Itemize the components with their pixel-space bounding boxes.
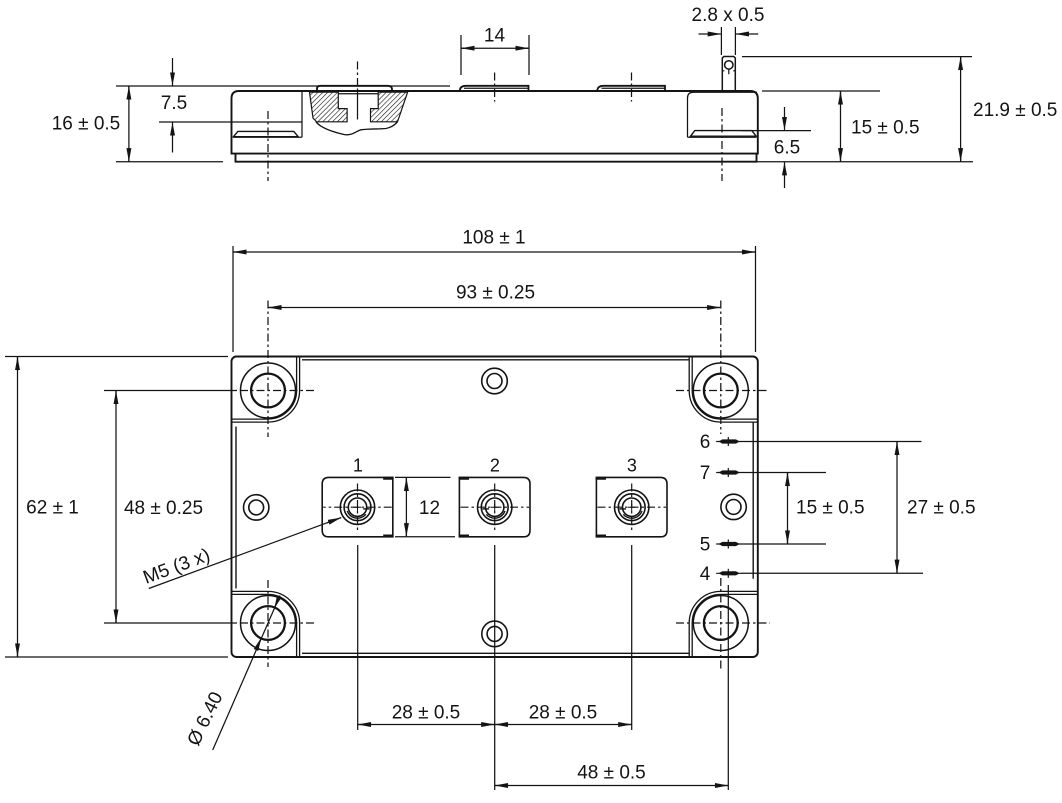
side view: right washer trapezoid	[691, 131, 757, 137]
terminal 3 circles	[615, 490, 649, 524]
terminal 1 circles	[340, 490, 374, 524]
top view: lid inset top	[302, 359, 689, 361]
dimension 48±0.25	[104, 390, 237, 392]
side view: terminal bump 2	[460, 86, 529, 91]
svg-text:14: 14	[484, 26, 506, 47]
terminal 3	[596, 477, 667, 536]
side view: nut top line in cavity	[338, 93, 378, 95]
side view: module body outline	[232, 91, 758, 162]
terminals 1 2 3	[322, 477, 667, 536]
terminal 1 centerlines	[323, 484, 392, 532]
centerline bump3 (side)	[631, 73, 633, 102]
side view: right boss inner vertical + top	[688, 92, 758, 137]
svg-text:5: 5	[700, 535, 711, 556]
terminal 3 square	[596, 477, 667, 536]
corner tab top-left	[232, 357, 297, 420]
svg-text:7: 7	[700, 463, 711, 484]
mounting hole bottom-right	[693, 596, 748, 651]
svg-text:48 ± 0.5: 48 ± 0.5	[577, 763, 646, 784]
svg-text:M5 (3 x): M5 (3 x)	[140, 545, 213, 589]
top view: lid inset bottom	[302, 652, 689, 654]
svg-text:6: 6	[700, 432, 711, 453]
corner tab top-right	[692, 357, 758, 420]
centerline hole TL vertical	[240, 301, 770, 671]
top view: module outline	[232, 357, 758, 658]
pin 7	[716, 468, 741, 477]
corner tab bottom-right	[692, 594, 758, 657]
svg-text:28 ± 0.5: 28 ± 0.5	[392, 703, 461, 724]
dimension 16 +-0.5 : extension lines	[116, 85, 450, 87]
dimension 28 right	[495, 724, 631, 726]
small hole top middle	[482, 368, 508, 394]
terminal 2 square	[459, 477, 530, 536]
centerline left boss (side)	[267, 111, 269, 181]
svg-text:2.8 x 0.5: 2.8 x 0.5	[692, 5, 765, 26]
pin extension lines	[741, 441, 922, 443]
svg-text:15 ± 0.5: 15 ± 0.5	[796, 498, 865, 519]
mounting hole top-left	[241, 363, 296, 418]
terminal 1 square	[322, 477, 393, 536]
side view: screw centerline in cavity	[357, 89, 359, 120]
dia 6.40 leader	[213, 596, 280, 751]
terminal 3 centerlines	[598, 484, 667, 532]
side view: nut pocket right hatch block	[371, 92, 408, 122]
svg-text:21.9 ± 0.5: 21.9 ± 0.5	[973, 100, 1057, 121]
dimension 7.5 arrows	[172, 58, 174, 86]
dimension 21.9 +-0.5	[742, 56, 972, 58]
dimension 16 line	[128, 86, 130, 161]
pin 5	[716, 540, 741, 549]
small hole bottom middle	[482, 621, 508, 647]
svg-text:93 ± 0.25: 93 ± 0.25	[456, 283, 535, 304]
side view centerlines	[268, 62, 722, 182]
svg-text:27 ± 0.5: 27 ± 0.5	[907, 498, 976, 519]
small hole left	[244, 495, 269, 520]
mounting hole top-right	[693, 363, 748, 418]
corner tab bottom-left	[232, 594, 297, 657]
small hole right	[721, 494, 746, 519]
svg-text:2: 2	[490, 456, 500, 476]
svg-text:108 ± 1: 108 ± 1	[462, 228, 525, 249]
centerline bump2 (side)	[494, 73, 496, 102]
terminal 2 circles	[478, 490, 512, 524]
terminal extension lines below	[357, 545, 359, 730]
svg-text:Ø 6.40: Ø 6.40	[184, 689, 228, 749]
terminal 2 centerlines	[461, 484, 530, 532]
svg-text:1: 1	[353, 456, 363, 476]
centerline nut pocket (side)	[357, 62, 359, 87]
dimension 108	[232, 246, 234, 352]
dimension 62	[5, 356, 228, 358]
dimension 15±0.5 top view	[787, 473, 789, 544]
pin 6	[716, 441, 741, 443]
dimension 27±0.5	[896, 442, 898, 573]
side view: baseplate	[236, 154, 757, 162]
terminal 1	[322, 477, 393, 536]
dimension 93	[268, 307, 720, 309]
side view: right boss bottom line	[688, 136, 757, 138]
side view: terminal bump 3	[597, 86, 665, 91]
side view: terminal cap over nut pocket	[317, 86, 392, 91]
dimension 48±0.5	[495, 785, 728, 787]
side view: pocket floor line / 7.5 extension	[159, 121, 302, 123]
pin 4	[716, 569, 741, 578]
M5 leader	[149, 518, 341, 589]
side view: faston pin	[722, 57, 735, 92]
pins 6 7 5 4 top view	[716, 437, 741, 578]
svg-text:15 ± 0.5: 15 ± 0.5	[851, 118, 920, 139]
svg-text:3: 3	[627, 456, 637, 476]
dimension 14	[461, 35, 529, 75]
side view: left boss bottom line	[233, 136, 302, 138]
top view dimensions	[5, 246, 923, 790]
top view: lid inset left	[235, 427, 237, 589]
terminal 2	[459, 477, 530, 536]
svg-text:48 ± 0.25: 48 ± 0.25	[124, 498, 203, 519]
svg-text:6.5: 6.5	[774, 138, 800, 159]
svg-text:4: 4	[700, 564, 711, 585]
top view: lid inset right	[752, 423, 754, 579]
side view: pocket bottom break line	[316, 122, 397, 135]
dimension 2.8 x 0.5	[699, 27, 759, 55]
svg-text:12: 12	[419, 498, 440, 519]
dimension 12	[395, 476, 451, 478]
side view: nut pocket left hatch block	[310, 92, 348, 122]
svg-text:28 ± 0.5: 28 ± 0.5	[529, 703, 598, 724]
dimension 28 left	[358, 724, 494, 726]
svg-text:62 ± 1: 62 ± 1	[26, 498, 79, 519]
mounting hole bottom-left	[241, 596, 296, 651]
dimension 15 +-0.5 (side)	[762, 90, 880, 92]
svg-text:16 ± 0.5: 16 ± 0.5	[52, 114, 121, 135]
side view: left washer trapezoid	[234, 131, 299, 136]
svg-text:7.5: 7.5	[161, 93, 187, 114]
centerline right boss (side)	[721, 108, 723, 181]
side view: left boss inner vertical	[301, 92, 303, 138]
dimension 6.5	[741, 130, 811, 132]
